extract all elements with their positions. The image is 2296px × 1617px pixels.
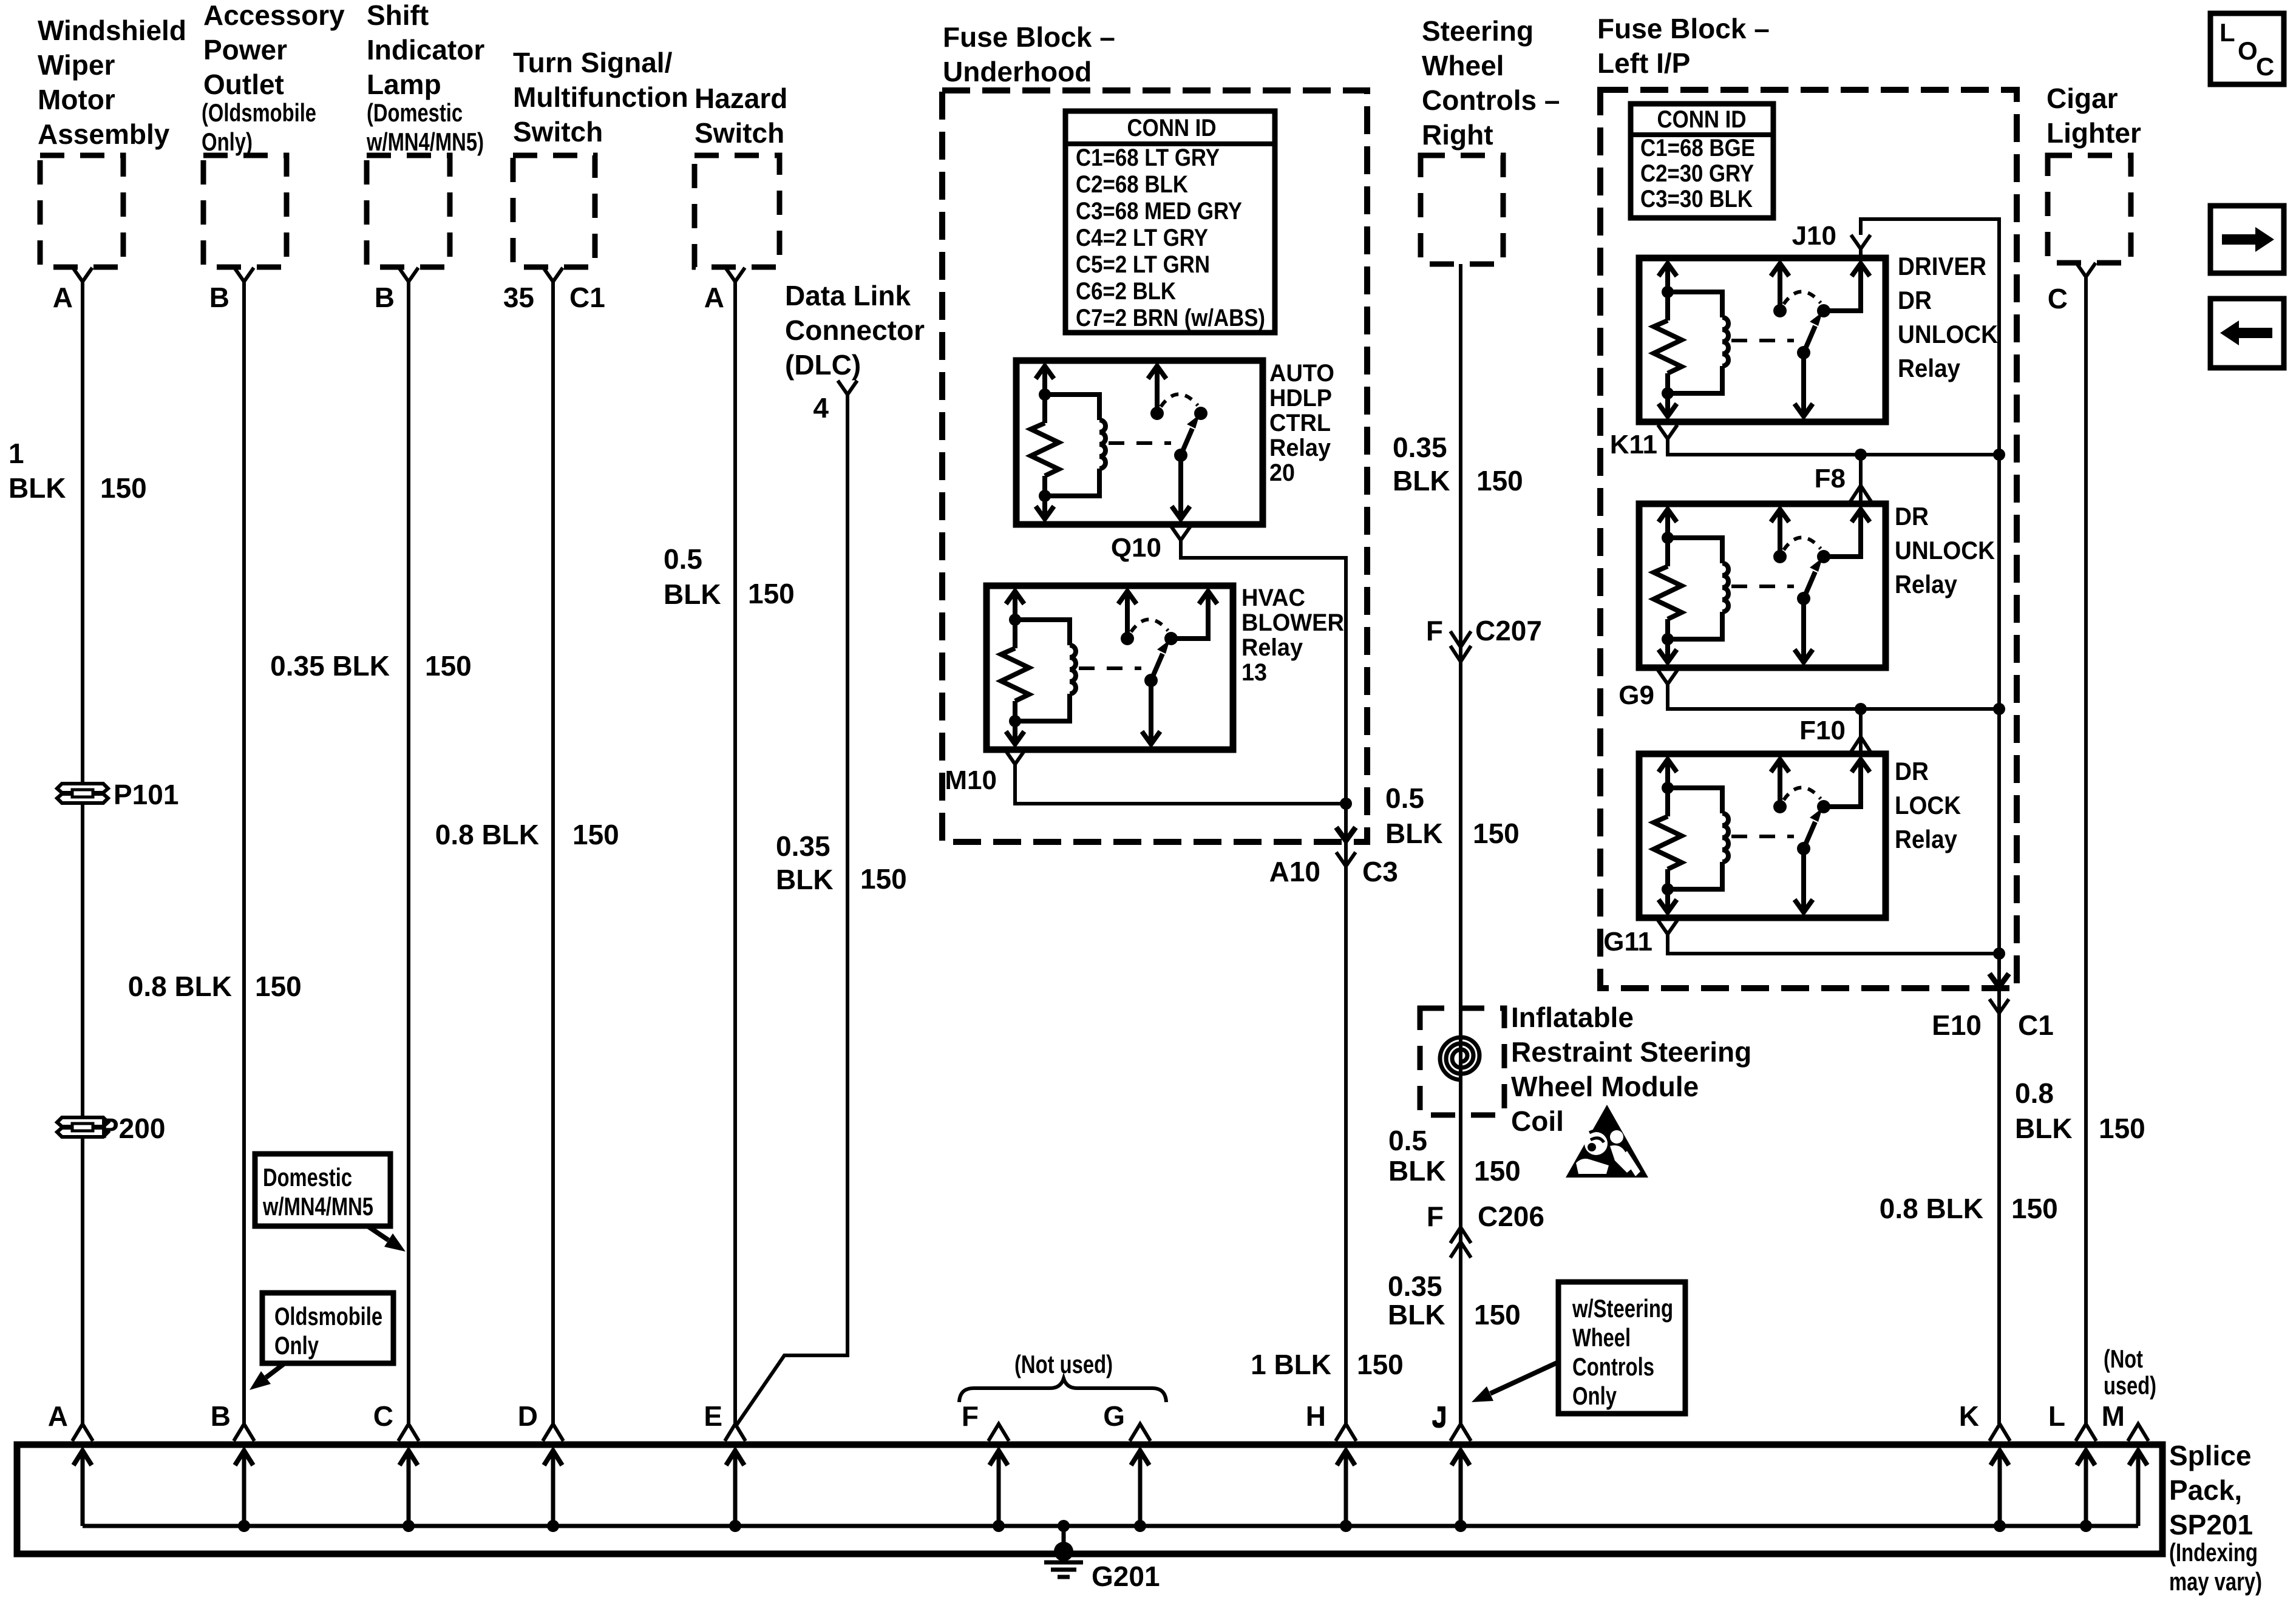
svg-text:150: 150 [1474,1155,1521,1187]
svg-text:F8: F8 [1815,464,1846,493]
svg-text:Turn Signal/: Turn Signal/ [513,47,673,78]
svg-text:Hazard: Hazard [695,83,787,114]
svg-text:BLK: BLK [1393,465,1450,497]
svg-text:Relay: Relay [1895,825,1958,853]
svg-text:P101: P101 [114,779,178,810]
svg-text:Right: Right [1422,119,1493,151]
svg-text:Relay: Relay [1269,435,1331,461]
svg-text:150: 150 [2011,1193,2058,1224]
svg-text:Fuse Block –: Fuse Block – [943,21,1115,53]
svg-text:C207: C207 [1475,615,1542,646]
svg-text:J: J [1432,1400,1447,1432]
svg-text:CONN ID: CONN ID [1657,106,1747,133]
svg-text:4: 4 [813,392,829,424]
svg-text:LOCK: LOCK [1895,791,1961,819]
svg-text:Splice: Splice [2169,1440,2252,1471]
svg-text:Relay: Relay [1898,354,1961,382]
svg-text:Assembly: Assembly [38,118,170,150]
svg-text:w/Steering: w/Steering [1572,1294,1673,1323]
svg-text:0.35: 0.35 [776,830,830,862]
svg-text:may vary): may vary) [2169,1567,2262,1596]
svg-text:E: E [704,1400,722,1432]
svg-text:Coil: Coil [1511,1105,1564,1137]
svg-text:C206: C206 [1478,1201,1544,1232]
svg-text:(Not: (Not [2104,1344,2143,1373]
svg-text:CONN ID: CONN ID [1127,115,1217,141]
svg-text:C1: C1 [569,282,605,313]
svg-text:C5=2 LT GRN: C5=2 LT GRN [1076,251,1210,278]
svg-text:150: 150 [255,971,302,1002]
svg-text:C: C [373,1400,393,1432]
svg-text:SP201: SP201 [2169,1509,2253,1541]
svg-text:H: H [1306,1400,1326,1432]
svg-text:150: 150 [1473,818,1520,849]
svg-text:(DLC): (DLC) [785,349,861,381]
svg-text:1: 1 [8,438,24,469]
svg-text:Data Link: Data Link [785,280,911,311]
svg-text:C6=2 BLK: C6=2 BLK [1076,278,1176,305]
svg-text:Inflatable: Inflatable [1511,1002,1634,1033]
svg-text:F: F [962,1400,979,1432]
svg-text:used): used) [2104,1371,2156,1400]
svg-text:F: F [1426,615,1443,646]
svg-text:1 BLK: 1 BLK [1251,1349,1331,1380]
svg-text:Relay: Relay [1241,634,1303,661]
svg-text:BLK: BLK [1388,1155,1446,1187]
svg-text:BLK: BLK [776,864,834,895]
svg-text:Lighter: Lighter [2046,117,2141,149]
svg-text:150: 150 [572,819,619,850]
svg-text:F10: F10 [1799,716,1846,745]
svg-text:0.35: 0.35 [1388,1270,1442,1302]
svg-text:0.5: 0.5 [1385,782,1424,814]
svg-text:Motor: Motor [38,84,115,115]
svg-text:C3=30 BLK: C3=30 BLK [1640,186,1753,212]
svg-text:L: L [2048,1400,2065,1432]
svg-text:L: L [2220,18,2235,47]
svg-text:(Indexing: (Indexing [2169,1538,2258,1567]
svg-text:DR: DR [1898,286,1932,314]
svg-text:Only: Only [1572,1381,1617,1410]
svg-text:Controls: Controls [1572,1352,1654,1381]
svg-text:G201: G201 [1092,1561,1160,1592]
svg-text:C3=68 MED GRY: C3=68 MED GRY [1076,198,1242,225]
svg-text:DRIVER: DRIVER [1898,252,1986,280]
svg-text:20: 20 [1269,459,1295,486]
svg-text:(Oldsmobile: (Oldsmobile [202,98,316,127]
svg-text:B: B [211,1400,231,1432]
svg-text:C: C [2048,283,2068,314]
svg-text:C1=68 BGE: C1=68 BGE [1640,135,1755,161]
svg-text:Restraint Steering: Restraint Steering [1511,1036,1751,1068]
svg-text:BLK: BLK [8,472,66,504]
svg-text:C4=2 LT GRY: C4=2 LT GRY [1076,225,1208,251]
svg-text:Multifunction: Multifunction [513,81,688,113]
svg-text:Wiper: Wiper [38,49,115,81]
svg-text:Lamp: Lamp [367,69,441,100]
svg-text:Oldsmobile: Oldsmobile [274,1302,382,1331]
svg-text:150: 150 [425,650,472,682]
svg-text:Wheel Module: Wheel Module [1511,1071,1699,1102]
svg-text:Accessory: Accessory [203,0,345,31]
svg-text:DR: DR [1895,502,1929,531]
svg-text:Left I/P: Left I/P [1597,47,1690,79]
svg-text:UNLOCK: UNLOCK [1895,536,1995,564]
svg-text:Pack,: Pack, [2169,1474,2242,1506]
svg-text:BLK: BLK [2015,1113,2073,1144]
svg-text:Only): Only) [202,127,253,156]
svg-text:Cigar: Cigar [2046,83,2118,114]
svg-text:Switch: Switch [513,116,603,147]
svg-text:HDLP: HDLP [1269,385,1332,412]
svg-text:35: 35 [503,282,534,313]
svg-text:M10: M10 [945,765,997,795]
svg-text:C2=30 GRY: C2=30 GRY [1640,160,1754,187]
svg-text:0.8: 0.8 [2015,1077,2054,1109]
svg-text:C2=68 BLK: C2=68 BLK [1076,171,1188,198]
svg-text:150: 150 [860,863,907,895]
svg-text:E10: E10 [1932,1009,1982,1041]
svg-text:0.8 BLK: 0.8 BLK [128,971,232,1002]
svg-text:B: B [209,282,229,313]
svg-text:0.5: 0.5 [664,543,702,575]
svg-text:150: 150 [1357,1349,1404,1380]
svg-text:BLK: BLK [1388,1299,1445,1331]
svg-text:HVAC: HVAC [1241,585,1305,611]
svg-text:Relay: Relay [1895,570,1958,598]
svg-text:DR: DR [1895,757,1929,785]
svg-text:C: C [2256,52,2274,81]
svg-text:K11: K11 [1610,430,1657,459]
svg-text:Only: Only [274,1331,319,1360]
svg-text:Wheel: Wheel [1422,50,1504,81]
svg-text:150: 150 [2099,1113,2145,1144]
svg-text:0.8 BLK: 0.8 BLK [1880,1193,1983,1224]
svg-text:0.5: 0.5 [1388,1125,1427,1156]
svg-text:A: A [53,282,73,313]
svg-text:Connector: Connector [785,314,925,346]
svg-text:Power: Power [203,34,287,66]
svg-text:Controls –: Controls – [1422,84,1560,116]
svg-text:F: F [1427,1201,1444,1232]
svg-text:Q10: Q10 [1111,533,1161,563]
svg-text:A: A [48,1400,68,1432]
svg-text:w/MN4/MN5): w/MN4/MN5) [366,127,484,156]
svg-text:O: O [2238,36,2258,65]
svg-text:150: 150 [100,472,147,504]
svg-text:Indicator: Indicator [367,34,484,66]
svg-text:J10: J10 [1792,221,1836,251]
svg-text:Steering: Steering [1422,15,1533,47]
svg-text:C7=2 BRN (w/ABS): C7=2 BRN (w/ABS) [1076,305,1265,331]
svg-text:G: G [1103,1400,1125,1432]
svg-text:P200: P200 [100,1113,165,1144]
svg-text:Fuse Block –: Fuse Block – [1597,13,1770,44]
svg-text:Underhood: Underhood [943,56,1092,87]
svg-text:0.35: 0.35 [1393,432,1447,463]
svg-text:BLOWER: BLOWER [1241,609,1344,636]
svg-text:G11: G11 [1603,927,1652,957]
svg-text:Domestic: Domestic [263,1163,352,1192]
svg-text:0.35 BLK: 0.35 BLK [270,650,390,682]
svg-text:G9: G9 [1618,680,1654,710]
svg-text:Wheel: Wheel [1572,1323,1631,1352]
svg-text:150: 150 [1476,465,1523,497]
svg-text:A: A [704,282,724,313]
svg-text:C3: C3 [1362,856,1398,887]
svg-text:C1=68 LT GRY: C1=68 LT GRY [1076,144,1220,171]
svg-text:13: 13 [1241,659,1267,686]
svg-text:Switch: Switch [695,117,784,149]
svg-text:(Domestic: (Domestic [367,98,463,127]
svg-text:BLK: BLK [664,578,721,610]
svg-text:UNLOCK: UNLOCK [1898,320,1998,348]
svg-text:150: 150 [1474,1299,1521,1331]
svg-text:BLK: BLK [1385,818,1443,849]
svg-text:Shift: Shift [367,0,429,31]
svg-text:B: B [375,282,395,313]
svg-text:150: 150 [748,578,795,609]
svg-text:CTRL: CTRL [1269,410,1331,436]
svg-text:Outlet: Outlet [203,69,284,100]
svg-text:D: D [518,1400,538,1432]
svg-text:K: K [1959,1400,1979,1432]
svg-text:A10: A10 [1269,856,1320,887]
svg-text:w/MN4/MN5: w/MN4/MN5 [262,1192,373,1221]
svg-text:M: M [2102,1400,2125,1432]
svg-text:AUTO: AUTO [1269,360,1334,387]
svg-text:Windshield: Windshield [38,15,186,46]
svg-text:0.8 BLK: 0.8 BLK [435,819,539,850]
svg-text:C1: C1 [2018,1009,2054,1041]
